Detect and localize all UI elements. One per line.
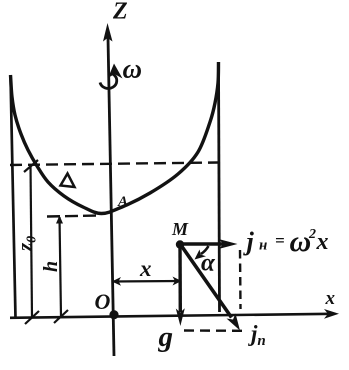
svg-text:=: =: [275, 231, 285, 250]
z axis: [103, 23, 114, 356]
svg-text:н: н: [259, 238, 267, 254]
vector g vertical: [176, 245, 185, 327]
svg-text:j: j: [243, 227, 255, 256]
liquid surface dashed line: [10, 163, 218, 166]
origin point O: [109, 310, 118, 319]
svg-text:x: x: [139, 256, 152, 281]
angle alpha arc: [195, 246, 209, 260]
svg-text:A: A: [117, 194, 128, 210]
h dimension line: [54, 216, 68, 324]
svg-text:ω: ω: [290, 225, 312, 258]
svg-text:x: x: [325, 288, 336, 309]
dashed horizontal projection line: [184, 329, 242, 332]
vector jH horizontal: [180, 239, 238, 249]
paraboloid surface curve: [11, 62, 219, 214]
z0 dimension line: [24, 160, 39, 324]
surface marker triangle: [61, 174, 75, 188]
dashed vertical projection line: [239, 250, 242, 309]
svg-text:M: M: [171, 219, 189, 239]
vertex dashed line: [47, 216, 101, 217]
vector jn diagonal: [181, 245, 241, 331]
svg-text:z0: z0: [13, 236, 40, 252]
svg-text:α: α: [201, 250, 216, 277]
x dimension line: [112, 277, 182, 286]
svg-text:ω: ω: [123, 54, 143, 84]
label jH = omega^2 x: [243, 225, 329, 258]
svg-text:h: h: [40, 261, 62, 272]
svg-text:x: x: [316, 229, 329, 255]
svg-text:Z: Z: [112, 0, 128, 25]
svg-text:O: O: [95, 289, 111, 314]
svg-text:g: g: [158, 321, 174, 353]
x axis: [10, 309, 339, 319]
point M: [176, 240, 184, 248]
rotation arrow omega: [100, 64, 123, 89]
svg-text:jп: jп: [247, 321, 266, 349]
right wall line: [219, 62, 220, 312]
left wall line: [11, 75, 16, 318]
svg-text:2: 2: [308, 227, 316, 242]
